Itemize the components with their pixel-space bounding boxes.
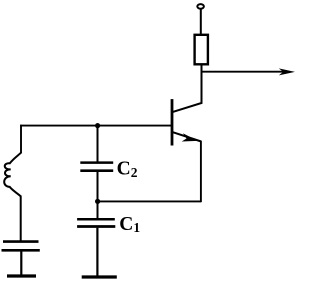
inductor L1 (4, 152, 21, 196)
wire C1 to ground (96, 228, 98, 276)
transistor Q1 emitter arrowhead (182, 133, 198, 141)
resistor R1 (195, 35, 208, 65)
capacitor C3 bottom plate (2, 249, 40, 252)
wire collector lead (173, 72, 202, 112)
wire C2 to node (97, 172, 99, 202)
supply terminal circle (197, 4, 204, 9)
output arrowhead (279, 68, 295, 75)
wire base lead (20, 125, 171, 127)
wire emitter horizontal (98, 200, 201, 202)
wire node to C2 (97, 126, 99, 162)
wire capacitor to ground (20, 252, 22, 275)
wire top-left corner down (20, 125, 22, 153)
capacitor C3 top plate (3, 240, 39, 243)
wire inductor to capacitor (20, 196, 22, 241)
capacitor C1 bottom plate (77, 225, 115, 228)
wire emitter vertical (200, 141, 202, 202)
wire resistor to output node (201, 65, 203, 73)
transistor Q1 emitter lead (173, 132, 201, 141)
ground left (7, 274, 36, 277)
node junction base/top (95, 123, 100, 128)
wire terminal to resistor R1 (200, 9, 202, 34)
capacitor C2 top plate (80, 161, 113, 164)
capacitor C1 top plate (77, 218, 115, 221)
svg-text:C2: C2 (117, 159, 138, 180)
wire node to C1 (97, 201, 99, 218)
svg-text:C1: C1 (119, 214, 140, 235)
transistor Q1 base bar (171, 99, 174, 145)
ground middle (82, 275, 117, 278)
capacitor C2 bottom plate (80, 169, 113, 172)
output wire with arrow (202, 71, 289, 73)
node junction C1/C2/emitter (95, 199, 100, 204)
